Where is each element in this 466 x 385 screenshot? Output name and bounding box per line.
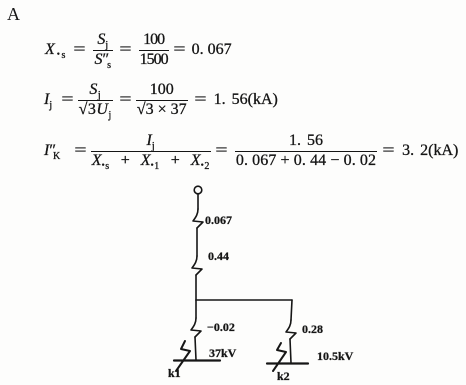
formula 3: I''K = Ij/(X*s+X*1+X*2) = 1.56/(0.067+0.44-0.02) = 3.2(kA) <box>44 133 458 170</box>
reactance right branch (0.28) zigzag <box>286 320 296 339</box>
reactance X*s (0.067) zigzag <box>193 209 203 228</box>
wire left branch below bus <box>195 300 197 318</box>
svg-text:−0.02: −0.02 <box>207 320 235 334</box>
wire right branch down from bus corner <box>291 300 292 320</box>
bus junction horizontal wire <box>196 299 292 301</box>
k2 fault bolt <box>273 343 286 371</box>
k1 fault bolt <box>176 341 190 371</box>
wire to k1 bar <box>195 337 196 360</box>
svg-text:10.5kV: 10.5kV <box>317 349 354 363</box>
svg-text:k1: k1 <box>168 366 181 380</box>
formula 2: Ij = Sj/(sqrt3 Uj) = 100/(sqrt3 x 37) = 1.56(kA) <box>44 82 278 119</box>
k1 busbar <box>174 359 220 361</box>
wire to k2 bar <box>290 339 291 363</box>
label A <box>7 4 20 25</box>
svg-text:0.44: 0.44 <box>208 249 229 263</box>
source terminal circle <box>194 186 202 194</box>
formula 1: X*s = Sj/S''s = 100/1500 = 0.067 <box>45 32 232 69</box>
reactance left branch (-0.02) zigzag <box>191 318 201 337</box>
k2 busbar <box>267 362 308 364</box>
wire to bus <box>195 275 197 300</box>
wire <box>196 228 198 256</box>
wire from terminal down <box>197 194 199 209</box>
svg-text:0.067: 0.067 <box>205 213 232 227</box>
reactance X*1 (0.44) zigzag <box>192 256 202 275</box>
svg-text:0.28: 0.28 <box>302 322 323 336</box>
svg-text:37kV: 37kV <box>209 346 237 360</box>
svg-text:k2: k2 <box>277 369 290 383</box>
